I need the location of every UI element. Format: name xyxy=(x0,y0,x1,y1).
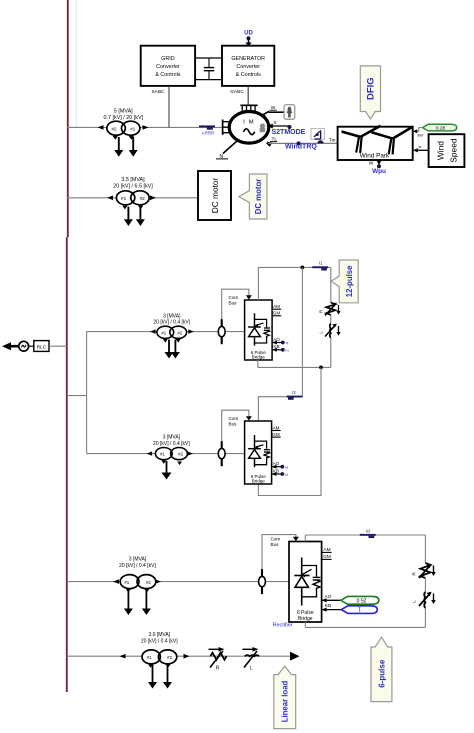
svg-text:#1: #1 xyxy=(124,580,129,585)
svg-text:6-pulse: 6-pulse xyxy=(377,659,386,688)
wire arrow T3 right xyxy=(188,329,194,333)
transformer T4 caption xyxy=(153,435,190,447)
wire branch vertical xyxy=(86,332,88,454)
bridge U4 thyristor xyxy=(248,435,263,467)
ground transformer T5 right xyxy=(142,589,151,615)
svg-text:#1: #1 xyxy=(160,452,165,457)
transformer T3 caption xyxy=(153,313,190,325)
svg-text:Wpu: Wpu xyxy=(372,168,386,175)
bridge U3 label xyxy=(251,350,267,360)
wire wind speed to wind park xyxy=(413,145,429,153)
bridge U3 snubber xyxy=(255,319,271,343)
svg-text:25.0: 25.0 xyxy=(356,596,366,602)
transformer T6 caption xyxy=(141,632,178,645)
svg-text:I M: I M xyxy=(243,120,255,126)
wire arrow row2 right xyxy=(150,196,156,201)
svg-text:UD: UD xyxy=(244,31,253,37)
svg-text:3.5 [MVA]: 3.5 [MVA] xyxy=(121,177,145,183)
svg-text:0.28: 0.28 xyxy=(436,126,446,132)
ground transformer T1 right xyxy=(129,136,138,157)
svg-text:20 [kV] / 6.5 [kV]: 20 [kV] / 6.5 [kV] xyxy=(113,183,153,189)
ground transformer T6 left xyxy=(148,664,157,688)
wire source to bus xyxy=(49,345,67,347)
svg-text:1: 1 xyxy=(358,606,361,612)
bridge U4 box xyxy=(245,421,272,484)
wire GABC xyxy=(247,86,249,105)
svg-text:Wind: Wind xyxy=(436,141,446,160)
svg-text:#2: #2 xyxy=(146,580,151,585)
svg-text:5 [MVA]: 5 [MVA] xyxy=(114,109,133,115)
svg-text:#2: #2 xyxy=(111,126,117,131)
svg-text:3 [MVA]: 3 [MVA] xyxy=(129,557,147,563)
svg-text:Wind Park: Wind Park xyxy=(360,153,390,160)
transformer T5 caption xyxy=(119,557,156,570)
svg-text:GENERATOR: GENERATOR xyxy=(231,56,265,62)
ground transformer T3 left xyxy=(163,339,174,359)
DC motor callout xyxy=(239,174,267,219)
bridge U5 pin AM xyxy=(322,547,332,553)
svg-text:dW: dW xyxy=(417,134,423,138)
wire row1 bus to IM xyxy=(67,126,223,128)
svg-text:3 [MVA]: 3 [MVA] xyxy=(163,435,181,441)
variable resistor R 6p xyxy=(412,563,436,578)
wire bridge1 bottom stub xyxy=(257,360,259,367)
wire rl branch vertical top xyxy=(330,267,332,303)
wind park box xyxy=(338,127,413,160)
bridge U3 pin AO xyxy=(272,337,289,345)
wire arrow row1 left xyxy=(98,125,104,130)
wire between R and L 6p xyxy=(424,577,426,592)
wire dc plus rail bridge3 xyxy=(305,534,425,536)
bridge U5 thyristor xyxy=(294,558,311,606)
bridge U3 pin AM xyxy=(272,304,281,309)
bus B20kV segment 1 xyxy=(67,0,69,237)
svg-text:Id: Id xyxy=(366,528,370,533)
ammeter I2 xyxy=(287,390,303,400)
source ES arrow xyxy=(2,342,19,350)
svg-text:#2: #2 xyxy=(178,452,183,457)
pin TL xyxy=(266,137,278,147)
ground transformer T6 right xyxy=(163,664,172,688)
breaker BRK1 xyxy=(218,319,225,344)
svg-text:L: L xyxy=(250,666,253,672)
svg-text:Rectifier: Rectifier xyxy=(273,622,293,628)
wire row4 bus to bridge3 xyxy=(67,581,289,583)
ammeter Id xyxy=(360,528,376,538)
svg-text:WindTRQ: WindTRQ xyxy=(285,144,317,151)
bridge U5 label xyxy=(297,610,314,622)
svg-text:GABC: GABC xyxy=(230,89,244,95)
svg-text:20 [kV] / 0.4 [kV]: 20 [kV] / 0.4 [kV] xyxy=(119,563,156,569)
ground transformer T2 right xyxy=(136,206,145,226)
wire dc plus rail bridge1 xyxy=(258,266,330,268)
wire rl chain top 6p xyxy=(424,535,426,563)
transformer T6 windings xyxy=(142,650,177,664)
wire row5 bus to load xyxy=(67,655,291,657)
transformer T2 3.5MVA caption xyxy=(113,177,153,189)
wire bridge2 bottom loop xyxy=(258,367,321,495)
wire arrow row4 right xyxy=(155,579,161,584)
svg-text:0.7 [kV] / 20 [kV]: 0.7 [kV] / 20 [kV] xyxy=(104,115,144,121)
wire bridge1 top stub xyxy=(257,267,259,300)
svg-text:R: R xyxy=(216,666,220,672)
transformer T2 3.5MVA windings xyxy=(116,191,149,205)
svg-text:Bus: Bus xyxy=(271,542,280,547)
label Com Bus 1 xyxy=(229,295,239,305)
load end arrow xyxy=(290,652,300,661)
wire IM to WindPark xyxy=(268,142,338,144)
wire rl chain bottom 6p xyxy=(424,608,426,628)
bridge U4 pin AO xyxy=(272,461,289,469)
bridge U3 pin KB xyxy=(272,344,289,352)
variable resistor R 12p xyxy=(319,303,341,316)
variable resistor R load xyxy=(209,647,227,672)
svg-text:L: L xyxy=(412,600,417,603)
wire branch upper horizontal xyxy=(87,331,245,333)
svg-text:Bridge: Bridge xyxy=(298,616,313,622)
wire arrow row4 left xyxy=(113,579,119,584)
transformer T1 5MVA caption xyxy=(104,109,144,121)
svg-text:GRID: GRID xyxy=(161,56,175,62)
svg-text:I1: I1 xyxy=(319,261,323,266)
node WindTRQ xyxy=(285,141,317,150)
junction node xyxy=(301,266,305,270)
bridge U4 pin KB xyxy=(272,468,289,476)
wire arrow T4 left xyxy=(147,451,153,455)
bridge U4 pin AM xyxy=(272,425,281,430)
transformer T1 5MVA windings xyxy=(107,121,140,135)
svg-text:#2: #2 xyxy=(167,655,172,660)
svg-text:Com: Com xyxy=(229,416,239,421)
svg-text:#1: #1 xyxy=(147,655,152,660)
wind turbine 2 xyxy=(372,127,412,154)
svg-text:w: w xyxy=(419,145,422,149)
svg-text:20 [kV] / 0.4 [kV]: 20 [kV] / 0.4 [kV] xyxy=(153,320,190,326)
svg-text:& Controls: & Controls xyxy=(155,72,180,78)
junction node xyxy=(319,366,323,370)
bridge U4 snubber xyxy=(255,441,271,465)
pin N xyxy=(216,141,238,160)
svg-text:SABC: SABC xyxy=(151,89,165,95)
wire SABC xyxy=(168,86,170,127)
tag 25.0 xyxy=(341,596,379,604)
bridge U5 pin GM xyxy=(322,554,332,560)
breaker BRK2 xyxy=(218,441,225,466)
svg-text:#1: #1 xyxy=(130,126,136,131)
wire arrow row2 left xyxy=(107,196,113,201)
faint guide line xyxy=(75,0,77,128)
wire bridge3 bottom stub xyxy=(304,622,306,627)
wire rl branch vertical bottom xyxy=(330,338,332,368)
svg-text:#1: #1 xyxy=(121,196,127,201)
wire com bus 2 xyxy=(222,410,252,453)
bus B20kV segment 2 xyxy=(66,237,68,692)
wire arrow T4 right xyxy=(187,451,193,455)
ammeter ARRR xyxy=(199,125,215,135)
svg-text:DC motor: DC motor xyxy=(210,178,220,214)
wire dc minus rail bridge3 xyxy=(305,626,425,628)
svg-text:Com: Com xyxy=(229,295,239,300)
svg-text:DC motor: DC motor xyxy=(254,179,263,215)
6-pulse callout xyxy=(371,637,392,701)
ground transformer T2 left xyxy=(122,206,133,226)
bridge U3 box xyxy=(245,300,273,360)
dc link bus bottom xyxy=(195,79,222,81)
svg-text:20 [kV] / 0.4 [kV]: 20 [kV] / 0.4 [kV] xyxy=(141,639,178,645)
node UD xyxy=(244,31,253,47)
svg-text:Speed: Speed xyxy=(449,138,459,163)
wire arrow row5 left xyxy=(120,654,126,659)
wire bus stub to 12-pulse branch xyxy=(67,395,87,397)
transformer T3 windings xyxy=(157,326,187,338)
12-pulse callout xyxy=(331,260,358,303)
svg-text:Linear load: Linear load xyxy=(281,680,290,722)
svg-text:#1: #1 xyxy=(161,330,166,335)
DC motor box xyxy=(198,171,231,220)
linear load callout xyxy=(274,666,296,728)
svg-text:Converter: Converter xyxy=(236,64,260,70)
GENERATOR converter box U2 xyxy=(222,46,274,86)
tag 1 xyxy=(341,606,377,614)
svg-text:W: W xyxy=(369,160,374,166)
meter TRQ xyxy=(311,129,325,144)
svg-text:3.0 [MVA]: 3.0 [MVA] xyxy=(149,632,171,638)
bridge U4 pin GM xyxy=(272,432,281,437)
label Com Bus 3 xyxy=(271,536,281,546)
svg-text:AM: AM xyxy=(273,425,280,430)
wire arrow row1 right xyxy=(143,125,149,130)
svg-text:Com: Com xyxy=(271,536,281,541)
svg-text:DFIG: DFIG xyxy=(366,77,377,100)
pin W xyxy=(262,105,285,119)
bridge U5 pin AO xyxy=(322,594,341,602)
bridge U3 thyristor xyxy=(248,313,263,345)
wire mid vertical to bridge2 xyxy=(258,267,302,421)
svg-text:20 [kV] / 0.4 [kV]: 20 [kV] / 0.4 [kV] xyxy=(153,441,190,447)
bridge U5 box xyxy=(289,542,322,623)
svg-text:I2: I2 xyxy=(292,390,296,395)
induction machine IM xyxy=(229,112,269,144)
pin S xyxy=(267,120,292,129)
transformer T4 windings xyxy=(155,448,187,460)
svg-text:RLC: RLC xyxy=(37,344,47,350)
source ES circle xyxy=(19,341,29,351)
variable inductor L load xyxy=(243,647,260,672)
svg-text:Converter: Converter xyxy=(156,64,180,70)
pin W wind park xyxy=(369,160,386,175)
slider W xyxy=(284,105,295,120)
IM stator comb left xyxy=(223,120,230,135)
capacitor C1 xyxy=(204,58,214,80)
ground transformer T3 right xyxy=(171,339,181,359)
wire bridge3 top stub xyxy=(304,535,306,542)
svg-text:Tm: Tm xyxy=(329,138,336,143)
tag 0.28 xyxy=(413,124,457,137)
svg-text:& Controls: & Controls xyxy=(236,72,261,78)
wire arrow T3 left xyxy=(150,329,156,333)
wire dc minus rail bridge1 xyxy=(258,366,331,368)
GRID converter box U1 xyxy=(141,46,195,86)
bridge U4 label xyxy=(251,474,267,484)
svg-text:Bus: Bus xyxy=(229,300,238,305)
bridge U3 pin GM xyxy=(272,311,281,316)
wind turbine 1 xyxy=(342,126,381,153)
dc link bus top xyxy=(195,57,222,59)
wire between R and L 12p xyxy=(330,315,332,324)
svg-text:AM: AM xyxy=(273,304,280,309)
DFIG callout xyxy=(360,66,380,119)
svg-text:S2TMODE: S2TMODE xyxy=(272,129,306,136)
wire arrow row5 right xyxy=(184,654,190,659)
bridge U5 pin KB xyxy=(322,603,342,612)
ammeter I1 xyxy=(312,261,328,271)
wire branch lower horizontal xyxy=(87,453,245,455)
svg-text:S: S xyxy=(273,120,276,126)
ground transformer T4 xyxy=(161,460,182,479)
wire row2 bus to DC motor xyxy=(67,197,198,199)
wire com bus 3 xyxy=(262,535,299,582)
wire com bus 1 xyxy=(222,289,252,331)
svg-text:Bridge: Bridge xyxy=(252,355,266,360)
svg-text:12-pulse: 12-pulse xyxy=(345,265,354,297)
svg-text:Bus: Bus xyxy=(229,421,238,426)
variable inductor L 12p xyxy=(319,324,341,338)
svg-text:Bridge: Bridge xyxy=(252,479,266,484)
svg-text:ARRR: ARRR xyxy=(202,131,214,136)
label Com Bus 2 xyxy=(229,416,239,426)
RLC box xyxy=(29,341,49,352)
transformer T5 windings xyxy=(120,575,156,589)
svg-text:#2: #2 xyxy=(177,330,182,335)
breaker BRK3 xyxy=(259,569,266,594)
svg-text:GM: GM xyxy=(273,311,281,316)
svg-text:GM: GM xyxy=(272,432,280,437)
variable inductor L 6p xyxy=(412,592,436,608)
ground transformer T5 left xyxy=(124,589,133,615)
IM rotor comb top xyxy=(240,105,257,112)
wind speed box xyxy=(429,134,465,167)
svg-text:3 [MVA]: 3 [MVA] xyxy=(163,313,181,319)
svg-text:#2: #2 xyxy=(140,196,146,201)
bridge U5 snubber xyxy=(302,566,321,597)
ground transformer T1 left xyxy=(113,136,124,157)
svg-text:R: R xyxy=(319,310,324,313)
